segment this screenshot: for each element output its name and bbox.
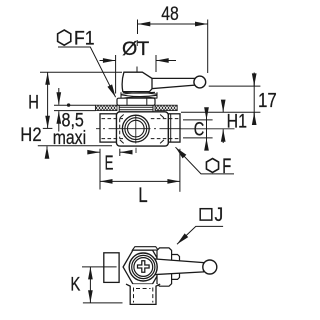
dimension E line right <box>120 151 128 153</box>
right port boss <box>168 114 180 142</box>
E right extension line <box>119 149 121 156</box>
dimension K line <box>89 267 91 303</box>
svg-text:F: F <box>222 155 231 178</box>
C bottom extension line <box>183 137 213 139</box>
stem centerline <box>136 20 139 88</box>
dimension E line left <box>92 151 100 153</box>
svg-text:E: E <box>105 152 114 174</box>
centerline right extension <box>181 128 235 130</box>
plan left boss <box>104 253 119 283</box>
left boss thread dashed lines <box>102 119 124 139</box>
svg-text:H: H <box>28 93 39 114</box>
dimension C line <box>206 108 208 150</box>
dimension H line <box>47 72 49 128</box>
horizontal centerline <box>96 128 181 130</box>
front port outer circle <box>122 115 149 142</box>
svg-text:K: K <box>70 273 80 295</box>
plan hex chamfer strip <box>132 247 158 250</box>
vertical centerline body <box>135 115 137 154</box>
dimension H2 bottom arrow <box>46 146 48 158</box>
dimension 17 top arrow <box>253 74 255 86</box>
svg-text:L: L <box>138 184 147 207</box>
plan lever ball <box>203 260 217 274</box>
left port boss <box>100 114 116 142</box>
phillips cross <box>138 261 150 273</box>
front port inner circle <box>128 120 145 137</box>
dimension 17 bottom arrow <box>253 113 255 125</box>
plan stem hub band 2 <box>172 255 180 280</box>
leader J <box>177 226 223 244</box>
dimension H1 top arrow <box>222 102 224 113</box>
plan stem inner circle <box>134 258 153 277</box>
H top extension line <box>40 71 122 73</box>
square symbol J <box>200 209 212 220</box>
valve body center block <box>116 112 168 146</box>
dimension OT line left <box>100 60 116 62</box>
panel hatch left <box>95 105 117 110</box>
svg-text:17: 17 <box>258 90 277 112</box>
plan lever <box>151 259 204 275</box>
hex symbol F1 <box>58 30 71 45</box>
panel nut <box>117 98 155 105</box>
front lever ball <box>194 76 206 88</box>
17 bottom extension line B <box>181 111 260 113</box>
H centerline tick <box>43 127 53 129</box>
panel nut face lines <box>127 98 147 105</box>
svg-text:48: 48 <box>161 4 179 25</box>
E left extension line <box>99 149 101 190</box>
stem washer stack <box>121 92 157 98</box>
plan body hexagon <box>123 250 162 284</box>
panel hatch right <box>155 105 177 110</box>
dimension 17 line <box>253 73 255 126</box>
svg-text:H2: H2 <box>20 125 41 146</box>
hex symbol F <box>206 159 218 173</box>
svg-text:ØT: ØT <box>122 39 150 60</box>
front lever bar <box>152 78 195 88</box>
8,5 top arrow <box>58 88 60 105</box>
plan stem middle circle <box>132 255 155 278</box>
left thread end dashed line <box>119 119 121 139</box>
panel top line <box>54 104 95 106</box>
plan bottom boss <box>126 284 160 304</box>
dimension 48 line <box>138 23 208 25</box>
dimension H1 bottom arrow <box>222 129 224 143</box>
bottom boss dashed bore lines <box>134 288 153 303</box>
svg-text:H1: H1 <box>227 111 247 132</box>
right boss thread dashed lines <box>151 119 179 139</box>
front port middle circle <box>125 118 147 140</box>
leader F <box>176 147 235 174</box>
plan stem hub band 1 <box>157 248 172 286</box>
plan centerline / K top extension <box>82 266 117 268</box>
C top extension line <box>183 119 213 121</box>
H2 bottom extension line <box>38 145 112 147</box>
neck lines below panel <box>119 105 153 112</box>
K bottom extension line <box>83 302 123 304</box>
dimension L line <box>100 180 180 182</box>
svg-text:maxi: maxi <box>53 128 86 149</box>
svg-text:F1: F1 <box>74 27 95 49</box>
dimension C top arrow <box>206 109 208 120</box>
svg-text:J: J <box>215 205 224 226</box>
dimension OT right extension line <box>155 55 157 72</box>
svg-text:C: C <box>194 119 205 140</box>
dimension OT line right <box>156 60 176 62</box>
dimension 48 right extension line <box>207 20 209 74</box>
corner chamfer marks <box>120 115 164 144</box>
panel bottom line <box>54 110 95 112</box>
17 top extension line A <box>209 85 261 87</box>
leader F1 <box>58 47 116 97</box>
8,5 bottom arrow <box>58 111 60 131</box>
plan stem outer circle <box>129 253 157 281</box>
dimension OT left extension line <box>115 55 117 94</box>
dimension C bottom arrow <box>206 138 208 149</box>
L right extension line <box>179 149 181 192</box>
reference dot <box>67 103 70 106</box>
front handle hub <box>122 72 152 91</box>
right port shoulder line <box>170 114 172 142</box>
